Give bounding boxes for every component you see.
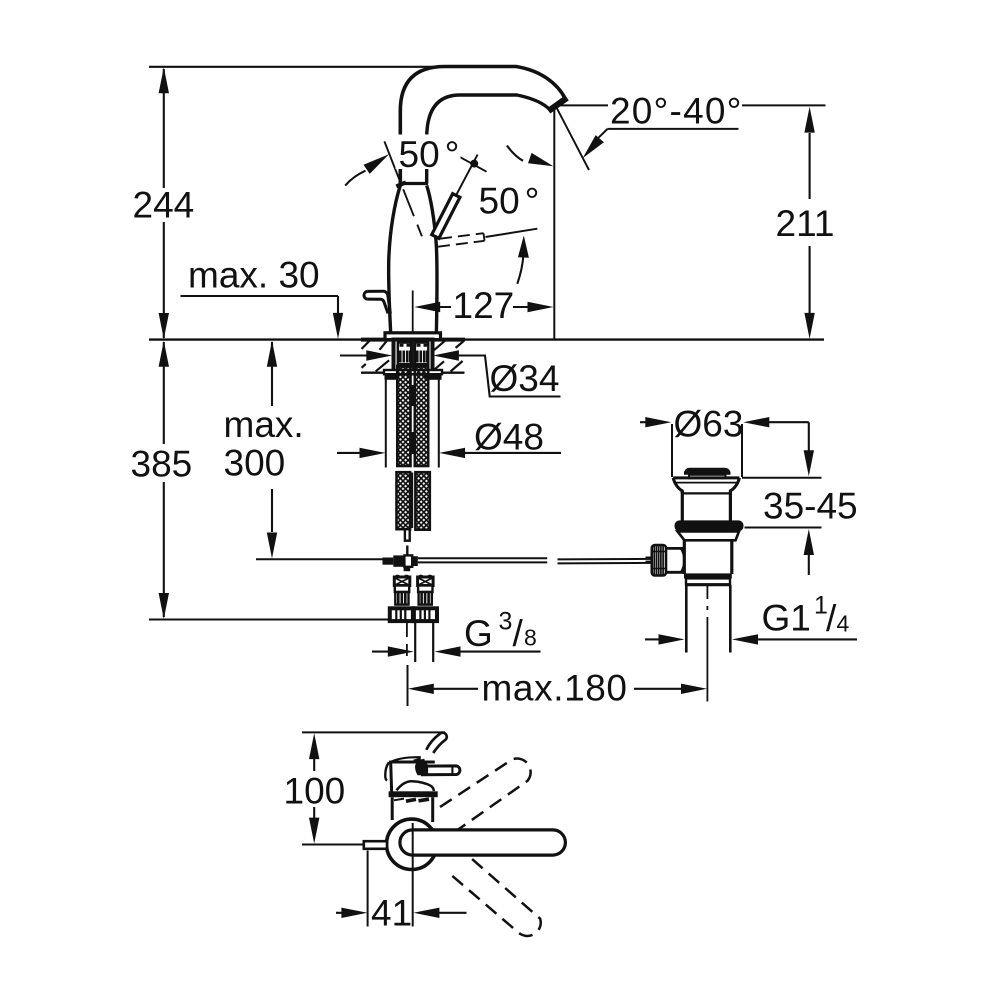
- top view spout beak sketch: [426, 733, 446, 753]
- handle lever solid (50 deg position): [432, 194, 460, 239]
- dimension 127 arrows: [414, 302, 440, 312]
- shank center line: [412, 340, 414, 373]
- svg-text:300: 300: [224, 443, 286, 484]
- pop-up rod hook at faucet left: [364, 291, 390, 313]
- 20-40 deg inline line left: [557, 104, 608, 106]
- top view collar zigzag: [414, 758, 425, 761]
- top view ellipse top arc: [397, 781, 434, 791]
- svg-text:50°: 50°: [479, 181, 540, 222]
- counter slab bottom line: [361, 372, 465, 374]
- waste side port inner arc: [681, 548, 684, 572]
- svg-text:35-45: 35-45: [763, 486, 858, 527]
- right hose connector crimp cap: [418, 576, 434, 586]
- G3/8 dimension left arrow: [372, 651, 390, 653]
- svg-text:127: 127: [453, 285, 515, 326]
- dimension 211 line: [809, 133, 811, 313]
- Ø34 dimension right arrow and leader: [433, 350, 459, 360]
- dimension max.300 arrow up: [267, 341, 277, 367]
- shank right hose section: [415, 343, 428, 367]
- counter hatching right: [433, 340, 464, 371]
- spout tip vertical extension line: [553, 106, 555, 339]
- svg-text:/: /: [513, 613, 524, 654]
- handle up-left position end cap: [396, 182, 406, 186]
- top view lever rod: [423, 766, 460, 775]
- right connector pipe below: [415, 622, 433, 663]
- svg-text:8: 8: [524, 625, 537, 651]
- top view body outline: [391, 762, 435, 792]
- waste coupling: [686, 578, 730, 584]
- svg-text:/: /: [826, 598, 837, 639]
- spout tip diagonal reference line: [557, 108, 590, 171]
- svg-text:max.180: max.180: [482, 667, 628, 708]
- Ø63 dimension right arrow and corner to 35-45: [743, 417, 769, 427]
- left connector threaded section: [395, 592, 408, 605]
- pop-up tee body: [393, 555, 404, 566]
- waste lower barrel: [684, 540, 732, 574]
- mounting shank box: [394, 340, 433, 374]
- dimension 100 arrow up: [309, 733, 319, 759]
- Ø48 sleeve left line: [385, 379, 387, 468]
- svg-text:385: 385: [131, 444, 193, 485]
- dimension 244 arrow up: [159, 67, 169, 93]
- dimension 385 arrow down: [159, 593, 169, 619]
- spout inner contour: [427, 95, 550, 184]
- rod stub into knob: [646, 557, 652, 561]
- svg-text:41: 41: [371, 892, 412, 933]
- left connector centerline below: [406, 622, 408, 657]
- Ø63 extension lines: [672, 424, 742, 477]
- waste tailpipe: [686, 585, 730, 653]
- handle up-left position dash-dot axis: [403, 189, 422, 236]
- dimension max.180 extension left: [407, 665, 409, 706]
- top view lever pivot block: [415, 762, 428, 775]
- locking nut left: [385, 374, 399, 380]
- waste O-ring: [675, 520, 744, 531]
- faucet body left edge: [389, 186, 401, 333]
- svg-text:4: 4: [837, 610, 850, 636]
- svg-text:G1: G1: [762, 598, 811, 639]
- 20-40 deg underline: [608, 128, 739, 130]
- waste barrel bottom band: [684, 573, 732, 578]
- left hose connector crimp cap: [394, 576, 410, 586]
- svg-text:Ø34: Ø34: [490, 358, 560, 399]
- pop-up tee lower stub: [404, 567, 411, 571]
- waste ring band: [689, 475, 726, 478]
- dimension 127 line: [440, 306, 528, 308]
- spout outer contour: [400, 67, 565, 187]
- top view lever capsule: [400, 830, 565, 855]
- 50 deg label 1 background: [396, 135, 461, 170]
- handle up-left thin reference line: [384, 141, 399, 180]
- waste collar: [678, 531, 740, 540]
- 35-45 top arrow: [804, 450, 814, 476]
- dimension 385 arrow up: [159, 341, 169, 367]
- waste side port: [666, 548, 684, 572]
- curved arrow upper right (spout tilt): [507, 146, 523, 161]
- svg-text:50°: 50°: [399, 134, 460, 175]
- counter top line: [149, 338, 824, 340]
- handle down position leader: [486, 229, 538, 237]
- extension line bottom (hose nuts level): [149, 618, 390, 620]
- pop-up tee left nut: [383, 558, 394, 565]
- svg-text:Ø63: Ø63: [674, 403, 744, 444]
- dimension 41 extension lines: [368, 823, 413, 927]
- flexible hose lower right: [415, 472, 429, 530]
- right connector threaded section: [419, 592, 432, 605]
- top view left cheek curve: [385, 763, 389, 781]
- flexible hose upper left: [397, 366, 410, 466]
- Ø48 dimension arrows: [337, 452, 362, 454]
- right connector body band: [418, 586, 432, 593]
- top view dashed lever position lower: [447, 859, 541, 936]
- waste flange detail lines: [676, 482, 738, 484]
- 35-45 top reference line: [742, 477, 822, 479]
- G1 1/4 dimension right arrow and line: [732, 634, 758, 644]
- svg-text:max. 30: max. 30: [188, 255, 320, 296]
- handle end cross blob: [470, 160, 478, 168]
- 20-40 deg inline line right: [742, 104, 826, 106]
- 35-45 bottom reference line: [745, 527, 822, 529]
- flexible hose lower left: [397, 472, 411, 529]
- faucet body right edge: [427, 186, 437, 333]
- dimension max.300 arrow down: [267, 533, 277, 559]
- left union nut: [390, 608, 413, 621]
- handle down position dashed rod: [438, 233, 485, 247]
- G3/8 dimension right arrow and line: [435, 646, 461, 656]
- G1 1/4 dimension left arrow: [645, 638, 661, 640]
- svg-text:G: G: [464, 613, 493, 654]
- top view body column: [392, 797, 433, 822]
- left connector body band: [395, 586, 409, 593]
- label max.30 underline and leader: [181, 296, 339, 314]
- top view cartridge band: [389, 791, 438, 797]
- dimension 211 arrow up: [804, 107, 814, 133]
- shank left hose section: [398, 343, 411, 367]
- faucet neck top edge: [399, 182, 428, 185]
- svg-text:3: 3: [499, 608, 513, 636]
- waste knurled knob: [652, 545, 666, 576]
- pop-up tee white joint: [404, 555, 412, 566]
- dimension 244 arrow down: [159, 313, 169, 339]
- waste plug cap: [684, 468, 731, 475]
- pop-up horizontal rod right part: [558, 559, 652, 564]
- dimension 211 arrow down: [804, 313, 814, 339]
- pop-up vertical rod between hoses: [411, 385, 414, 454]
- handle end cross line: [459, 157, 486, 172]
- top view dashed lever position upper: [440, 759, 531, 838]
- svg-text:20°-40°: 20°-40°: [610, 90, 743, 131]
- svg-text:211: 211: [776, 203, 835, 244]
- top view collar arc over body: [388, 757, 421, 763]
- counter hatching left: [362, 340, 390, 371]
- top view lever rod cap line: [451, 766, 453, 774]
- pop-up horizontal rod left part: [418, 558, 547, 562]
- waste tailpipe centerline: [706, 586, 708, 702]
- top view extension line top: [302, 731, 445, 733]
- dimension max.180 line and arrows: [434, 688, 683, 690]
- right union nut: [414, 608, 437, 621]
- svg-text:244: 244: [133, 185, 195, 226]
- 35-45 bottom arrow and line: [804, 529, 814, 555]
- waste flange top edge: [673, 476, 739, 479]
- svg-text:Ø48: Ø48: [474, 416, 544, 457]
- Ø34 dimension left line and arrow: [340, 354, 368, 356]
- handle axis leader to cross: [457, 155, 478, 195]
- curved arrow lower (handle swing 50): [517, 245, 523, 284]
- dimension 385 line: [163, 342, 165, 617]
- pop-up tee right collar: [412, 556, 418, 566]
- Ø63 dimension left arrow: [640, 421, 648, 423]
- spout tip cut face: [549, 98, 568, 111]
- svg-text:max.: max.: [224, 404, 304, 445]
- dimension 244 line: [163, 69, 165, 338]
- waste upper barrel: [682, 491, 730, 521]
- top view pop-up tab: [364, 841, 387, 849]
- extension line popup rod level: [256, 558, 383, 560]
- dimension 100 line: [313, 758, 315, 820]
- Ø48 sleeve right line: [438, 379, 440, 468]
- top view base circle: [387, 819, 437, 869]
- counter section thick band: [361, 338, 465, 342]
- extension line top (spout top level): [149, 66, 445, 68]
- faucet base plate: [385, 333, 441, 340]
- dimension 100 arrow down: [309, 818, 319, 844]
- washer under counter: [384, 370, 442, 374]
- locking nut right: [425, 374, 442, 380]
- pop-up rod vertical tube: [405, 529, 410, 541]
- dimension max.300 line: [271, 342, 273, 532]
- label max.30 arrow down to counter: [333, 313, 343, 339]
- curved arrow left (handle swing): [345, 171, 365, 186]
- 20-40 deg leader and arrow: [599, 129, 608, 138]
- dimension 41 line and arrows: [336, 912, 467, 914]
- top view extension line bottom: [302, 844, 368, 846]
- faucet centerline: [412, 291, 414, 333]
- top view under-band scribbles: [394, 799, 404, 801]
- flexible hose upper right: [415, 366, 428, 466]
- svg-text:100: 100: [284, 771, 346, 812]
- waste flange sides: [673, 478, 739, 494]
